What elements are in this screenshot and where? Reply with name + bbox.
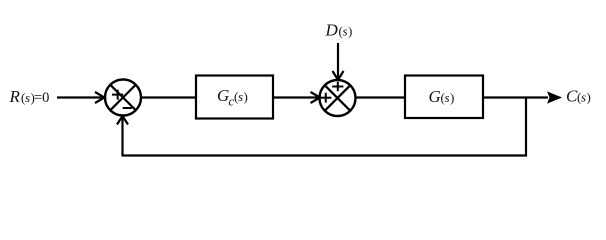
svg-text:s: s [445, 90, 450, 105]
svg-text:=0: =0 [34, 90, 49, 106]
svg-text:s: s [25, 90, 30, 105]
svg-text:s: s [343, 24, 348, 39]
svg-text:s: s [581, 90, 586, 105]
svg-text:D: D [325, 21, 339, 40]
svg-text:): ) [348, 24, 352, 39]
svg-text:s: s [238, 89, 243, 104]
svg-text:): ) [244, 89, 248, 104]
svg-text:R: R [9, 87, 21, 106]
svg-text:G: G [217, 86, 229, 105]
svg-text:): ) [587, 90, 591, 105]
svg-text:G: G [429, 87, 441, 106]
svg-text:): ) [450, 90, 454, 105]
